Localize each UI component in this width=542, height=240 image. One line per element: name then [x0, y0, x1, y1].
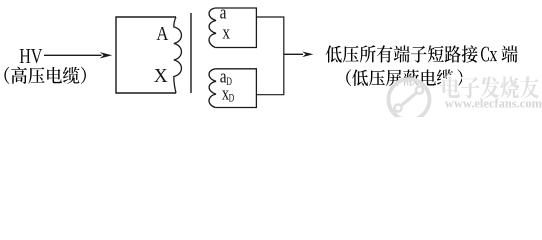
label 低压所有端子短路接: [326, 45, 478, 62]
label (低压屏蔽电缆) paren close: [458, 69, 463, 86]
LV winding squiggle aD-xD: [209, 69, 216, 108]
watermark logo cable bar: [399, 91, 419, 108]
watermark logo circle: [389, 79, 430, 120]
svg-text:x: x: [222, 23, 230, 44]
svg-text:X: X: [154, 65, 168, 87]
label (低压屏蔽电缆) paren open: [346, 69, 351, 86]
transformer tank box: [116, 17, 176, 93]
svg-text:a: a: [220, 3, 227, 24]
watermark 电子发烧友: [443, 76, 540, 98]
watermark logo connector circle bottom: [394, 104, 401, 111]
svg-text:www.elecfans.com: www.elecfans.com: [445, 97, 542, 111]
LV winding box aD-xD: [215, 69, 256, 108]
transformer core line: [190, 13, 192, 93]
label 低压屏蔽电缆: [352, 69, 453, 86]
watermark logo connector circle top: [416, 86, 423, 93]
svg-text:A: A: [156, 23, 168, 45]
label (高压电缆) paren close: [81, 67, 86, 84]
label 高压电缆: [11, 67, 79, 84]
svg-text:HV: HV: [19, 46, 42, 68]
label Cx: [481, 47, 497, 62]
arrow from bus to note text: [284, 53, 303, 55]
LV winding box a-x: [215, 8, 256, 48]
label 端: [502, 45, 518, 62]
svg-text:D: D: [229, 92, 235, 104]
LV winding squiggle a-x: [209, 8, 216, 48]
arrow from HV to transformer tank: [44, 54, 102, 56]
HV winding (right edge of tank): [174, 17, 182, 93]
label (高压电缆) paren open: [4, 67, 9, 84]
wire from a-x box to bus: [256, 17, 283, 54]
wire from aD-xD box to bus: [256, 54, 283, 94]
